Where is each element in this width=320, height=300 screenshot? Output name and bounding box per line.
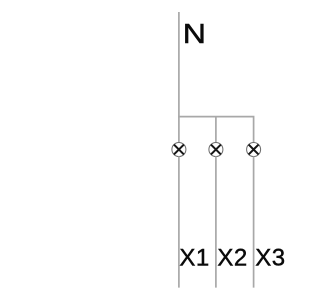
wire: branch 2 drop bbox=[215, 117, 217, 143]
svg-text:X1: X1 bbox=[179, 244, 209, 271]
wire: branch 2 lower drop bbox=[215, 156, 217, 287]
svg-text:X2: X2 bbox=[217, 244, 247, 271]
svg-text:X3: X3 bbox=[255, 244, 285, 271]
svg-text:N: N bbox=[183, 19, 206, 49]
lamp symbol E3 (circle-X) on branch 3 bbox=[247, 143, 261, 157]
wire: horizontal distribution bus bbox=[178, 117, 254, 143]
wire: branch 1 lower drop bbox=[178, 156, 180, 287]
lamp symbol E2 (circle-X) on branch 2 bbox=[209, 143, 223, 157]
wire: main vertical feeder from top bbox=[178, 12, 180, 143]
wire: branch 3 lower drop bbox=[253, 156, 255, 287]
lamp symbol E1 (circle-X) on branch 1 bbox=[172, 143, 186, 157]
